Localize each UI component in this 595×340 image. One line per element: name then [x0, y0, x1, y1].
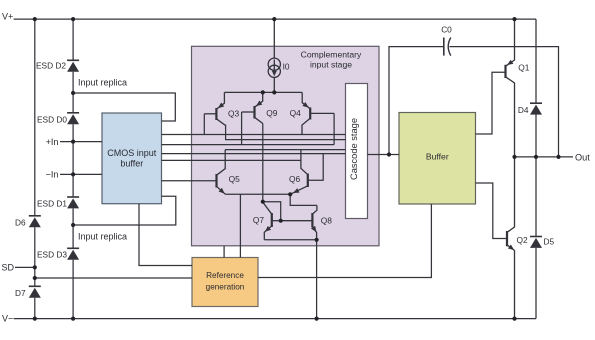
- transistor Q9 label: [266, 108, 278, 118]
- capacitor C0: [444, 38, 451, 56]
- wire: ESD vertical rail (D2/D0/D1/D3 chain): [72, 19, 74, 319]
- svg-text:V+: V+: [2, 12, 13, 22]
- svg-text:Q1: Q1: [518, 63, 530, 73]
- transistor Q5 label: [229, 174, 241, 184]
- transistor Q8 label: [321, 216, 333, 226]
- wire: bus line E1: [162, 153, 346, 155]
- wire: left vertical rail (D6/D7 chain): [34, 19, 36, 319]
- diode ESD D2 label: [36, 61, 66, 71]
- svg-text:Q2: Q2: [517, 235, 529, 245]
- svg-text:ESD D1: ESD D1: [37, 199, 67, 209]
- diode D4 label: [518, 105, 529, 115]
- node V+ label: [2, 12, 13, 22]
- transistor Q7 label: [253, 215, 265, 225]
- capacitor C0 feedback: left branch: [389, 47, 443, 155]
- wire: bus line C (to Q9/Q4 bases): [162, 144, 335, 146]
- wire: D5 branch (output to V-): [535, 157, 537, 319]
- wire: CMOS buffer bottom to reference generation: [139, 204, 192, 266]
- svg-text:D5: D5: [544, 236, 555, 246]
- svg-text:Input replica: Input replica: [78, 231, 127, 241]
- block: cascode stage: [346, 84, 368, 219]
- wire: buffer lower output to Q2 base: [476, 183, 508, 239]
- svg-text:Q7: Q7: [253, 215, 265, 225]
- wire: V- rail: [14, 318, 536, 320]
- wire: input replica top loop: [73, 93, 175, 121]
- svg-text:D6: D6: [15, 218, 26, 228]
- svg-text:Q6: Q6: [289, 174, 301, 184]
- wire: buffer upper output to Q1 base: [476, 72, 506, 134]
- wire: Q5/Q6 tail bus: [225, 194, 317, 205]
- block: CMOS input buffer: [102, 113, 162, 204]
- diode D4: [530, 103, 542, 114]
- node V- label: [2, 314, 13, 324]
- diode ESD D1: [67, 197, 79, 208]
- transistor Q2: [507, 157, 515, 319]
- transistor Q4 label: [290, 108, 302, 118]
- diode ESD D3 label: [37, 249, 67, 259]
- wire: reference generation to buffer bottom: [258, 204, 431, 278]
- wire: cascode output to buffer: [368, 154, 400, 156]
- block: reference generation: [192, 258, 258, 307]
- svg-text:C0: C0: [441, 24, 452, 34]
- diode ESD D3: [67, 248, 79, 259]
- diode D5 label: [544, 236, 555, 246]
- diode D6 label: [15, 218, 26, 228]
- wire: mirror emitter bus to V-: [264, 240, 316, 319]
- wire: -In input: [60, 173, 102, 175]
- svg-text:ESD D2: ESD D2: [36, 61, 66, 71]
- wire: bus line B (Q3 collector to cascode): [226, 125, 346, 140]
- transistor Q4: [302, 92, 334, 144]
- svg-text:V−: V−: [2, 314, 13, 324]
- block: buffer: [399, 113, 476, 205]
- capacitor C0 label: [441, 24, 452, 34]
- svg-text:−In: −In: [46, 170, 59, 180]
- diode ESD D2: [67, 60, 79, 71]
- svg-text:+In: +In: [46, 137, 59, 147]
- node Out label: [575, 152, 590, 162]
- svg-text:Q4: Q4: [290, 108, 302, 118]
- diode ESD D1 label: [37, 199, 67, 209]
- svg-text:buffer: buffer: [120, 159, 143, 169]
- transistor Q6 (diode-connected): [290, 150, 323, 195]
- svg-text:D7: D7: [15, 288, 26, 298]
- transistor Q8: [281, 205, 317, 239]
- transistor Q6 label: [289, 174, 301, 184]
- transistor Q9: [242, 92, 263, 144]
- wire: output line: [515, 156, 574, 158]
- wire: bus line E2: [162, 159, 301, 161]
- current source I0: [268, 19, 280, 92]
- transistor Q1: [506, 19, 515, 157]
- transistor Q7 (diode-connected): [263, 202, 281, 240]
- wire: SD input: [15, 267, 192, 278]
- svg-text:Q3: Q3: [228, 109, 240, 119]
- node I0 label: [283, 62, 290, 72]
- diode D5: [530, 237, 542, 248]
- wire: input replica bottom loop: [73, 196, 176, 225]
- wire: D4 branch (V+ to output): [535, 19, 537, 157]
- node SD label: [1, 263, 14, 273]
- wire: bus line D (Q5/Q6 collectors to cascode): [225, 149, 345, 151]
- svg-text:generation: generation: [206, 283, 245, 292]
- svg-text:CMOS input: CMOS input: [107, 148, 157, 158]
- node junction dots: [33, 17, 561, 321]
- wire: stage box stub to reference generation: [223, 246, 225, 258]
- diode D6: [29, 216, 41, 227]
- diode D7 label: [15, 288, 26, 298]
- svg-text:Q9: Q9: [266, 108, 278, 118]
- wire: V+ rail: [14, 18, 536, 20]
- wire: C0 right branch to output node: [449, 47, 558, 157]
- wire: bus line A (Q3/Q4 node to cascode): [162, 134, 346, 136]
- transistor Q1 label: [518, 63, 530, 73]
- transistor Q3 label: [228, 109, 240, 119]
- svg-text:Reference: Reference: [206, 271, 244, 280]
- transistor Q3: [204, 92, 225, 134]
- svg-text:input stage: input stage: [310, 59, 352, 69]
- svg-text:SD: SD: [1, 263, 14, 273]
- wire: emitter bus (top row): [224, 91, 302, 93]
- wire: tail-bus to reference generation: [239, 194, 241, 257]
- svg-text:Out: Out: [575, 152, 590, 162]
- node -In label: [46, 170, 59, 180]
- svg-text:Input replica: Input replica: [78, 77, 127, 87]
- svg-text:D4: D4: [518, 105, 529, 115]
- diode ESD D0: [67, 113, 79, 124]
- svg-text:Complementary: Complementary: [301, 49, 362, 59]
- transistor Q2 label: [517, 235, 529, 245]
- wire: Q9 collector down to Q7 collector node: [262, 124, 264, 202]
- svg-text:Q8: Q8: [321, 216, 333, 226]
- svg-text:Buffer: Buffer: [426, 152, 449, 162]
- wire: Q5 base line: [162, 180, 217, 182]
- wire: +In input: [60, 141, 102, 143]
- svg-text:ESD D0: ESD D0: [37, 115, 67, 125]
- node label: Input replica (bottom): [78, 231, 127, 241]
- svg-text:Q5: Q5: [229, 174, 241, 184]
- transistor Q5: [217, 150, 226, 195]
- node label: Input replica (top): [78, 77, 127, 87]
- svg-text:I0: I0: [283, 62, 290, 72]
- diode ESD D0 label: [37, 115, 67, 125]
- svg-text:Cascode stage: Cascode stage: [349, 118, 359, 180]
- node +In label: [46, 137, 59, 147]
- stage box: complementary input stage: [192, 46, 380, 246]
- diode D7: [29, 286, 41, 297]
- svg-text:ESD D3: ESD D3: [37, 249, 67, 259]
